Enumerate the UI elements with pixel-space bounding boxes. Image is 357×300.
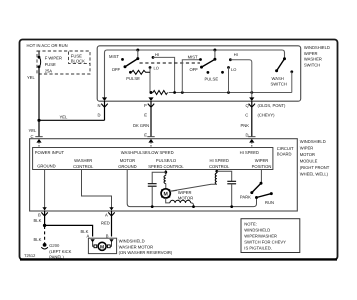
label HI SPEED CONTROL xyxy=(209,158,230,169)
svg-text:SWITCH FOR CHEVY: SWITCH FOR CHEVY xyxy=(244,239,286,244)
node bus HI1 xyxy=(173,91,176,94)
arrow washer control exit xyxy=(109,207,113,210)
svg-text:CONTROL: CONTROL xyxy=(209,164,230,169)
switch run arm xyxy=(255,192,273,199)
svg-text:F WIPER: F WIPER xyxy=(45,56,62,61)
wire motor ground rail xyxy=(127,170,256,207)
svg-text:PARK: PARK xyxy=(240,195,251,200)
inductor L3 motor coil xyxy=(170,200,191,203)
svg-text:WIPER/WASHER: WIPER/WASHER xyxy=(244,233,277,238)
wire bus bottom of switch xyxy=(151,92,292,94)
svg-text:OFF: OFF xyxy=(112,67,121,72)
inductor L2 hi coil xyxy=(215,173,217,184)
svg-text:BLK: BLK xyxy=(34,237,42,242)
wire BLK down to junction xyxy=(44,211,46,225)
wire power feed inside switch xyxy=(105,50,285,101)
wire BLK to washer motor xyxy=(45,225,93,236)
svg-text:PULSE: PULSE xyxy=(126,76,140,81)
svg-text:G200: G200 xyxy=(49,243,60,248)
node bus pole2 rail xyxy=(181,91,184,94)
svg-text:BLK: BLK xyxy=(34,218,42,223)
svg-text:LO: LO xyxy=(231,67,236,72)
label WASHER CONTROL xyxy=(73,158,94,169)
node bus LO2 xyxy=(227,91,230,94)
svg-text:M: M xyxy=(100,244,104,250)
svg-text:HOT IN ACC OR RUN: HOT IN ACC OR RUN xyxy=(27,43,68,48)
connector Q/C xyxy=(249,104,255,107)
svg-text:N: N xyxy=(98,103,101,108)
wire pole2 mist rail xyxy=(182,60,200,93)
svg-text:SWITCH: SWITCH xyxy=(304,62,320,67)
contact LO pole2 xyxy=(227,66,230,69)
wire washer A internal xyxy=(93,242,94,246)
note text xyxy=(244,221,286,250)
wire N/D down xyxy=(104,101,106,120)
svg-text:MOTOR: MOTOR xyxy=(120,158,135,163)
svg-text:WIPER: WIPER xyxy=(300,146,314,151)
washer motor box xyxy=(88,238,116,253)
wire wiper position xyxy=(260,170,262,184)
node bus P/E xyxy=(150,91,153,94)
label WINDSHIELD WIPER MOTOR MODULE xyxy=(300,139,330,177)
windshield wiper/washer switch box xyxy=(97,46,301,101)
svg-text:MODULE: MODULE xyxy=(300,159,318,164)
svg-text:D: D xyxy=(246,133,249,138)
connector pin B xyxy=(41,212,47,215)
svg-text:PNK: PNK xyxy=(241,123,250,128)
svg-text:M: M xyxy=(164,192,168,198)
svg-text:WASH/PULSE/LOW SPEED: WASH/PULSE/LOW SPEED xyxy=(121,150,174,155)
circuit board box xyxy=(33,148,273,170)
label MOTOR GROUND xyxy=(118,158,136,169)
svg-text:DK GRN: DK GRN xyxy=(133,123,149,128)
wire motor bottom xyxy=(166,198,170,203)
contact HI pole1 xyxy=(152,56,155,59)
wire wash output to bus xyxy=(291,72,293,93)
label WINDSHIELD WIPER WASHER SWITCH xyxy=(304,45,330,67)
connector N/D xyxy=(101,104,107,107)
svg-text:WASHER: WASHER xyxy=(304,57,322,62)
wire PNK xyxy=(251,101,253,136)
svg-text:CIRCUIT: CIRCUIT xyxy=(277,146,294,151)
wire YEL to module pin C xyxy=(38,120,40,136)
svg-text:MIST: MIST xyxy=(188,54,198,59)
node coil3 rail xyxy=(192,205,195,208)
svg-text:WIPER: WIPER xyxy=(304,51,318,56)
svg-text:SWITCH: SWITCH xyxy=(271,82,287,87)
border frame xyxy=(20,40,338,260)
svg-text:E: E xyxy=(144,113,147,118)
connector P/E exit arrow xyxy=(148,97,153,101)
contact PULSE pole2 xyxy=(207,71,210,74)
fuse block dashed box xyxy=(37,51,90,74)
connector pin C into module xyxy=(35,137,42,148)
svg-text:OFF: OFF xyxy=(190,67,199,72)
wire BLK dashed to ground xyxy=(44,226,46,243)
node ground junction xyxy=(43,224,46,227)
wire LO pole2 to bus xyxy=(228,68,230,93)
switch WASH xyxy=(275,57,286,72)
svg-text:WHEEL WELL): WHEEL WELL) xyxy=(300,172,329,177)
wire ground inside module xyxy=(44,170,46,211)
wiper motor M xyxy=(161,189,170,198)
svg-text:BLOCK: BLOCK xyxy=(71,59,85,64)
svg-text:HI SPEED: HI SPEED xyxy=(210,158,229,163)
label G200 xyxy=(49,243,71,259)
wire pole2 stem xyxy=(214,50,216,59)
wire coil to motor xyxy=(165,184,167,189)
svg-text:HI: HI xyxy=(155,52,159,57)
svg-text:PANEL): PANEL) xyxy=(49,255,64,260)
node pulse branch xyxy=(164,171,167,174)
label WINDSHIELD WASHER MOTOR xyxy=(119,239,173,256)
svg-text:WINDSHIELD: WINDSHIELD xyxy=(304,45,330,50)
connector P/E xyxy=(148,104,154,107)
wire coil3 to rail xyxy=(191,203,194,207)
svg-text:BOARD: BOARD xyxy=(277,152,292,157)
connector pin A xyxy=(108,212,114,215)
contact LO pole1 xyxy=(149,66,152,69)
switch park arm xyxy=(250,182,262,194)
svg-text:T2512: T2512 xyxy=(24,253,36,258)
svg-text:LO: LO xyxy=(154,66,159,71)
svg-text:YEL: YEL xyxy=(27,75,36,80)
wire pole1 stem xyxy=(137,50,139,59)
svg-text:HI: HI xyxy=(234,52,238,57)
wire HI pole2 to pin Q/C xyxy=(230,60,251,101)
svg-text:PULSE: PULSE xyxy=(205,76,219,81)
label PULSE/LO SPEED CONTROL xyxy=(148,158,184,169)
svg-text:RED: RED xyxy=(101,220,110,225)
windshield wiper motor module box xyxy=(30,139,298,211)
switch pole2 arm xyxy=(200,58,216,69)
contact MIST pole2 xyxy=(199,58,202,61)
connector pin D into module xyxy=(248,137,255,148)
contact PULSE pole1 xyxy=(129,71,132,74)
resistor in bus xyxy=(153,91,168,95)
svg-text:WASHER: WASHER xyxy=(74,158,92,163)
svg-text:MOTOR: MOTOR xyxy=(300,152,315,157)
svg-text:WASH: WASH xyxy=(272,76,284,81)
label WIPER POSITION xyxy=(252,158,272,169)
node pole2 feed xyxy=(213,49,216,52)
wire DK GRN xyxy=(150,101,152,136)
svg-text:E: E xyxy=(144,133,147,138)
switch pole1 arm xyxy=(124,57,140,68)
ground G200 xyxy=(41,243,48,249)
svg-text:(OLDS, PONT): (OLDS, PONT) xyxy=(258,103,286,108)
label WASH SWITCH xyxy=(271,76,287,87)
resistor pulse pole1 xyxy=(132,70,151,74)
wire hi coil to motor xyxy=(170,184,217,191)
svg-text:C: C xyxy=(245,113,248,118)
svg-text:WINDSHIELD: WINDSHIELD xyxy=(119,239,145,244)
node hi branch xyxy=(215,170,218,173)
svg-text:WINDSHIELD: WINDSHIELD xyxy=(300,139,326,144)
svg-text:POSITION: POSITION xyxy=(252,164,272,169)
inductor L1 pulse coil xyxy=(164,176,166,184)
svg-text:YEL: YEL xyxy=(60,114,69,119)
node bus QC xyxy=(250,91,253,94)
wire washer B internal xyxy=(110,242,111,246)
wire RED down xyxy=(111,211,113,237)
fuse F WIPER 25A xyxy=(38,52,41,69)
capacitor C1 xyxy=(148,184,157,207)
svg-text:HI SPEED: HI SPEED xyxy=(240,150,259,155)
wire washer control inside module xyxy=(82,170,112,211)
mechanical link dashed xyxy=(140,62,201,64)
svg-text:P: P xyxy=(144,103,147,108)
svg-text:MOTOR: MOTOR xyxy=(178,195,193,200)
svg-text:B: B xyxy=(38,213,41,218)
svg-text:YEL: YEL xyxy=(29,128,38,133)
capacitor C2 xyxy=(227,181,236,206)
svg-text:CONTROL: CONTROL xyxy=(73,164,94,169)
svg-text:25A: 25A xyxy=(45,68,53,73)
svg-text:POWER INPUT: POWER INPUT xyxy=(35,150,65,155)
label F WIPER FUSE 25A xyxy=(45,56,62,74)
wire HI pole1 to bus xyxy=(153,57,175,92)
connector Q/C exit arrow xyxy=(249,97,254,101)
svg-text:IS PIGTAILED.: IS PIGTAILED. xyxy=(244,245,272,250)
svg-text:GROUND: GROUND xyxy=(37,164,55,169)
contact wash output xyxy=(290,70,293,73)
svg-text:WINDSHIELD: WINDSHIELD xyxy=(244,227,270,232)
svg-text:WASHER MOTOR: WASHER MOTOR xyxy=(119,245,154,250)
svg-text:GROUND: GROUND xyxy=(118,164,136,169)
node cap2 rail xyxy=(230,205,233,208)
node pole1 feed xyxy=(136,49,139,52)
wire capacitor branch xyxy=(152,172,166,183)
contact PULSE2 pole2 xyxy=(221,71,224,74)
note box xyxy=(241,219,300,253)
contact MIST pole1 xyxy=(121,58,124,61)
svg-text:(CHEVY): (CHEVY) xyxy=(258,113,276,118)
wire hi speed control xyxy=(216,170,218,174)
svg-text:PULSE/LO: PULSE/LO xyxy=(156,158,177,163)
svg-text:A: A xyxy=(105,213,108,218)
label CIRCUIT BOARD xyxy=(277,146,294,157)
wire YEL from fuse down xyxy=(38,67,40,120)
svg-text:MIST: MIST xyxy=(109,54,119,59)
washer motor M xyxy=(94,242,110,250)
connector N/D exit arrow xyxy=(102,97,107,101)
node cap1 rail xyxy=(151,205,154,208)
svg-text:FUSE: FUSE xyxy=(45,62,56,67)
label WIPER MOTOR xyxy=(171,190,193,201)
svg-text:RUN: RUN xyxy=(265,200,274,205)
svg-text:D: D xyxy=(98,113,101,118)
connector pin E into module xyxy=(147,137,154,148)
svg-text:SPEED CONTROL: SPEED CONTROL xyxy=(148,164,184,169)
svg-text:(ON WASHER RESERVOIR): (ON WASHER RESERVOIR) xyxy=(119,250,173,255)
wire pulse/lo speed control xyxy=(165,170,167,176)
svg-text:NOTE:: NOTE: xyxy=(244,221,257,226)
svg-text:WIPER: WIPER xyxy=(255,158,269,163)
svg-text:(RIGHT FRONT: (RIGHT FRONT xyxy=(300,165,330,170)
svg-text:WIPER: WIPER xyxy=(178,190,192,195)
contact HI pole2 xyxy=(229,58,232,61)
arrow washer A entry xyxy=(90,239,94,242)
wire LO pole1 to bus xyxy=(149,68,151,93)
arrow washer B entry xyxy=(109,239,113,242)
node junction YEL xyxy=(37,119,40,122)
arrow ground exit xyxy=(42,207,46,210)
svg-text:(LEFT KICK: (LEFT KICK xyxy=(49,249,71,254)
wire capacitor2 branch xyxy=(217,171,232,181)
svg-text:C: C xyxy=(31,134,34,139)
wire YEL horizontal xyxy=(39,119,105,121)
